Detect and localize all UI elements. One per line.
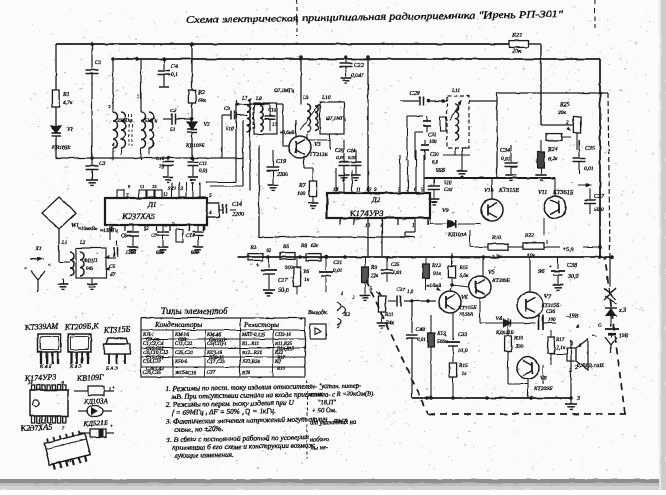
svg-text:4: 4 xyxy=(576,323,579,330)
svg-text:11: 11 xyxy=(140,184,144,189)
svg-text:14: 14 xyxy=(28,380,33,385)
svg-text:+: + xyxy=(110,425,113,430)
svg-text:С31: С31 xyxy=(428,133,436,138)
svg-text:R15: R15 xyxy=(458,265,468,271)
svg-text:С14: С14 xyxy=(232,201,242,208)
svg-text:10к: 10к xyxy=(527,253,536,259)
svg-text:1,0: 1,0 xyxy=(407,290,414,295)
svg-text:L9: L9 xyxy=(302,95,309,101)
svg-text:КТ315Б: КТ315Б xyxy=(457,305,477,311)
svg-text:С37: С37 xyxy=(207,371,216,376)
svg-text:51: 51 xyxy=(170,127,176,133)
svg-text:13: 13 xyxy=(152,184,157,189)
svg-text:L7: L7 xyxy=(241,96,248,102)
svg-text:КТ339АМ: КТ339АМ xyxy=(24,321,60,332)
svg-text:С48: С48 xyxy=(416,328,425,333)
svg-text:ЖС54С1б: ЖС54С1б xyxy=(174,371,196,376)
svg-text:С33: С33 xyxy=(458,332,467,338)
svg-text:0,25ГД-1ШЕ: 0,25ГД-1ШЕ xyxy=(577,364,604,369)
svg-text:13: 13 xyxy=(366,188,372,193)
svg-text:С22: С22 xyxy=(354,63,364,69)
svg-text:2200: 2200 xyxy=(277,172,288,178)
svg-text:1: 1 xyxy=(412,224,415,229)
svg-text:С35: С35 xyxy=(585,146,595,152)
svg-text:V4: V4 xyxy=(496,315,502,322)
svg-text:1к: 1к xyxy=(304,277,310,283)
svg-text:ГТ313Б: ГТ313Б xyxy=(309,152,328,158)
svg-text:Типы элементоб: Типы элементоб xyxy=(161,306,229,317)
svg-text:3: 3 xyxy=(576,396,580,402)
svg-text:схеме, но ±20%.: схеме, но ±20%. xyxy=(174,424,224,434)
svg-text:КВ109Г: КВ109Г xyxy=(76,373,105,383)
svg-text:С2: С2 xyxy=(170,108,177,114)
svg-text:680: 680 xyxy=(191,251,199,256)
svg-text:1: 1 xyxy=(341,292,344,297)
svg-text:С9: С9 xyxy=(151,234,157,239)
svg-text:R21: R21 xyxy=(511,32,522,39)
svg-text:V5: V5 xyxy=(488,270,495,276)
svg-text:6,2к: 6,2к xyxy=(548,156,558,162)
svg-text:К237ХА5: К237ХА5 xyxy=(121,211,155,221)
svg-text:50,0: 50,0 xyxy=(594,207,604,213)
svg-text:R8: R8 xyxy=(300,243,307,249)
svg-text:нобого: нобого xyxy=(310,436,329,443)
svg-text:Выходн.: Выходн. xyxy=(308,309,328,316)
svg-text:ны не-: ны не- xyxy=(310,444,328,451)
svg-text:680: 680 xyxy=(156,251,164,256)
svg-text:50,0: 50,0 xyxy=(278,288,289,294)
svg-text:L11: L11 xyxy=(451,88,460,94)
svg-text:х.3: х.3 xyxy=(618,308,626,314)
svg-text:R26: R26 xyxy=(241,371,251,376)
svg-text:С7,С9: С7,С9 xyxy=(146,338,159,343)
svg-text:R17: R17 xyxy=(555,337,565,343)
svg-text:" – "устан. питер-: " – "устан. питер- xyxy=(309,383,361,391)
svg-text:R1...R11: R1...R11 xyxy=(241,342,259,347)
svg-text:С9: С9 xyxy=(224,107,230,112)
svg-text:100: 100 xyxy=(297,191,306,197)
svg-text:КТ209Б: КТ209Б xyxy=(533,386,553,392)
svg-text:100: 100 xyxy=(429,140,437,145)
svg-text:5,6к: 5,6к xyxy=(459,273,469,279)
svg-text:V6: V6 xyxy=(461,295,468,301)
svg-text:47: 47 xyxy=(110,271,116,278)
svg-text:С25: С25 xyxy=(335,149,344,154)
svg-text:12: 12 xyxy=(163,193,169,198)
svg-text:Б А Э: Б А Э xyxy=(105,367,119,372)
svg-text:R2: R2 xyxy=(197,90,205,96)
svg-text:R9: R9 xyxy=(370,265,377,271)
svg-text:15: 15 xyxy=(461,371,467,377)
svg-text:4,7к: 4,7к xyxy=(63,99,73,106)
svg-text:V3: V3 xyxy=(314,142,321,148)
svg-text:0,01: 0,01 xyxy=(393,271,402,276)
svg-text:R12...R21: R12...R21 xyxy=(241,351,262,356)
svg-text:1300: 1300 xyxy=(126,251,137,256)
svg-text:С37: С37 xyxy=(594,194,605,200)
svg-text:L8: L8 xyxy=(255,96,262,102)
svg-text:С36: С36 xyxy=(546,309,555,315)
svg-text:Конденсаторы: Конденсаторы xyxy=(154,320,202,329)
svg-text:0,047: 0,047 xyxy=(351,72,364,79)
svg-text:С34: С34 xyxy=(500,147,510,154)
svg-text:С30: С30 xyxy=(430,152,439,158)
svg-text:≈10мкВв: ≈10мкВв xyxy=(78,226,98,232)
svg-text:510: 510 xyxy=(226,127,234,132)
svg-text:Сб(СП): Сб(СП) xyxy=(209,338,225,343)
svg-text:0,01: 0,01 xyxy=(333,269,342,274)
svg-text:С8: С8 xyxy=(121,234,127,239)
svg-text:91к: 91к xyxy=(433,271,442,277)
svg-text:≈10мВ: ≈10мВ xyxy=(427,283,442,289)
svg-text:20к: 20к xyxy=(512,48,523,55)
svg-text:62к: 62к xyxy=(311,244,319,249)
svg-text:R11: R11 xyxy=(384,312,394,318)
svg-text:R10: R10 xyxy=(491,235,501,241)
svg-text:С17: С17 xyxy=(278,278,289,284)
svg-text:0,1: 0,1 xyxy=(171,72,178,78)
svg-text:"18,П": "18,П" xyxy=(318,399,337,406)
svg-text:СП3-16: СП3-16 xyxy=(275,333,292,338)
svg-text:5МГц: 5МГц xyxy=(145,119,158,124)
svg-text:Д1: Д1 xyxy=(147,200,157,209)
svg-text:≈0,6мВ: ≈0,6мВ xyxy=(280,131,295,136)
svg-text:С25: С25 xyxy=(391,263,400,268)
svg-text:К50-16: К50-16 xyxy=(208,356,224,361)
svg-text:КД103А: КД103А xyxy=(83,397,109,406)
svg-text:9 11 13: 9 11 13 xyxy=(168,187,183,192)
svg-text:К 4 Б: К 4 Б xyxy=(39,365,51,370)
svg-text:R17: R17 xyxy=(276,356,286,361)
svg-text:39МГц: 39МГц xyxy=(117,119,132,124)
svg-text:62: 62 xyxy=(266,249,272,254)
svg-text:19В: 19В xyxy=(619,333,629,339)
svg-text:Ω7,1МГц: Ω7,1МГц xyxy=(326,116,347,122)
svg-text:049: 049 xyxy=(86,267,94,272)
svg-text:+: + xyxy=(549,265,552,270)
svg-text:ат указанных на: ат указанных на xyxy=(310,419,356,427)
svg-text:+: + xyxy=(444,334,447,339)
svg-text:R24: R24 xyxy=(547,146,558,153)
svg-text:С19,С22: С19,С22 xyxy=(146,347,164,352)
svg-text:0,01: 0,01 xyxy=(584,166,594,172)
svg-text:С27: С27 xyxy=(396,287,405,293)
svg-text:Резисторы: Резисторы xyxy=(243,320,279,329)
svg-text:V7: V7 xyxy=(544,293,552,300)
svg-text:+ 50 Ом.: + 50 Ом. xyxy=(312,407,337,414)
svg-text:лующие изменения.: лующие изменения. xyxy=(174,450,235,460)
svg-text:КД103А: КД103А xyxy=(447,232,467,238)
svg-text:КТ315Б: КТ315Б xyxy=(103,325,131,335)
svg-text:W1: W1 xyxy=(71,223,79,229)
svg-text:+: + xyxy=(112,386,115,391)
svg-text:КТ209Б,К: КТ209Б,К xyxy=(64,321,100,332)
svg-text:G: G xyxy=(598,323,602,329)
svg-text:С5: С5 xyxy=(109,264,116,270)
svg-text:V11: V11 xyxy=(538,190,547,196)
svg-text:канала- с R =20кОм(В).: канала- с R =20кОм(В). xyxy=(309,390,375,398)
svg-text:5: 5 xyxy=(209,193,212,199)
svg-text:R22: R22 xyxy=(524,233,534,239)
svg-text:+5,9: +5,9 xyxy=(562,247,574,253)
svg-text:КД521Б: КД521Б xyxy=(495,330,514,336)
svg-text:С32: С32 xyxy=(444,188,453,193)
svg-text:С10: С10 xyxy=(156,157,165,162)
svg-text:К237ХА5: К237ХА5 xyxy=(20,422,53,433)
svg-text:–19В: –19В xyxy=(565,314,579,320)
svg-text:22к: 22к xyxy=(371,274,379,279)
svg-text:2,1к: 2,1к xyxy=(556,345,566,351)
svg-text:С28: С28 xyxy=(178,338,187,343)
svg-text:R3: R3 xyxy=(249,245,256,251)
svg-text:ФП1П: ФП1П xyxy=(84,259,98,264)
svg-text:1: 1 xyxy=(571,342,573,347)
svg-text:20к: 20к xyxy=(558,110,567,116)
svg-text:R13,R15: R13,R15 xyxy=(276,347,295,352)
svg-text:100: 100 xyxy=(548,318,556,323)
svg-text:С11: С11 xyxy=(199,162,207,167)
svg-text:С38,С43: С38,С43 xyxy=(146,367,164,372)
svg-text:КТ209Б: КТ209Б xyxy=(491,278,511,284)
svg-text:V9: V9 xyxy=(442,208,449,214)
svg-text:С12: С12 xyxy=(186,234,195,239)
svg-text:С21: С21 xyxy=(333,260,342,266)
svg-text:С3: С3 xyxy=(99,161,106,167)
svg-text:R25: R25 xyxy=(559,102,570,108)
svg-text:К 4 Э: К 4 Э xyxy=(69,365,82,370)
svg-text:96: 96 xyxy=(538,268,545,275)
svg-text:Ω7,1МГц: Ω7,1МГц xyxy=(274,88,295,94)
svg-text:L10: L10 xyxy=(321,95,331,101)
svg-text:К174УР3: К174УР3 xyxy=(349,208,384,218)
svg-text:390: 390 xyxy=(514,344,524,350)
svg-text:R23,R24: R23,R24 xyxy=(241,360,260,365)
svg-text:Х1: Х1 xyxy=(35,246,42,252)
svg-text:910: 910 xyxy=(285,266,293,271)
svg-text:0,01: 0,01 xyxy=(199,169,208,174)
svg-text:R6: R6 xyxy=(302,269,309,275)
svg-text:х1: х1 xyxy=(66,459,72,464)
svg-text:С15,С31: С15,С31 xyxy=(146,356,164,361)
svg-text:Д2: Д2 xyxy=(371,195,381,204)
svg-text:11: 11 xyxy=(356,188,361,193)
svg-text:6,8: 6,8 xyxy=(432,160,439,165)
svg-text:С25,С31: С25,С31 xyxy=(175,351,193,356)
svg-text:0,01: 0,01 xyxy=(501,156,511,162)
svg-text:С4: С4 xyxy=(171,63,178,70)
svg-text:R7: R7 xyxy=(298,183,307,189)
svg-text:КТ315Е: КТ315Е xyxy=(498,188,519,194)
svg-text:1: 1 xyxy=(137,95,140,100)
svg-text:0,01: 0,01 xyxy=(417,338,426,343)
svg-text:С19: С19 xyxy=(276,159,286,165)
svg-text:КД521Б: КД521Б xyxy=(83,419,108,428)
svg-text:75: 75 xyxy=(159,165,165,170)
svg-text:КВ109Б: КВ109Б xyxy=(185,143,205,149)
svg-text:12: 12 xyxy=(272,123,277,128)
svg-text:Х2: Х2 xyxy=(343,312,350,318)
svg-text:R5: R5 xyxy=(282,244,289,250)
svg-text:С29: С29 xyxy=(410,91,420,97)
svg-text:R19: R19 xyxy=(276,367,286,372)
svg-text:7б,5БА: 7б,5БА xyxy=(459,313,473,318)
svg-text:V2: V2 xyxy=(203,122,210,128)
svg-text:•–: •– xyxy=(592,333,597,339)
svg-text:30,0: 30,0 xyxy=(567,274,579,280)
svg-text:С1: С1 xyxy=(95,60,102,66)
svg-text:≈13МГц: ≈13МГц xyxy=(100,228,118,234)
svg-text:К50-6: К50-6 xyxy=(174,360,188,365)
svg-text:R12: R12 xyxy=(431,263,441,269)
svg-text:S6Б: S6Б xyxy=(436,168,446,174)
svg-text:L2: L2 xyxy=(79,241,86,246)
